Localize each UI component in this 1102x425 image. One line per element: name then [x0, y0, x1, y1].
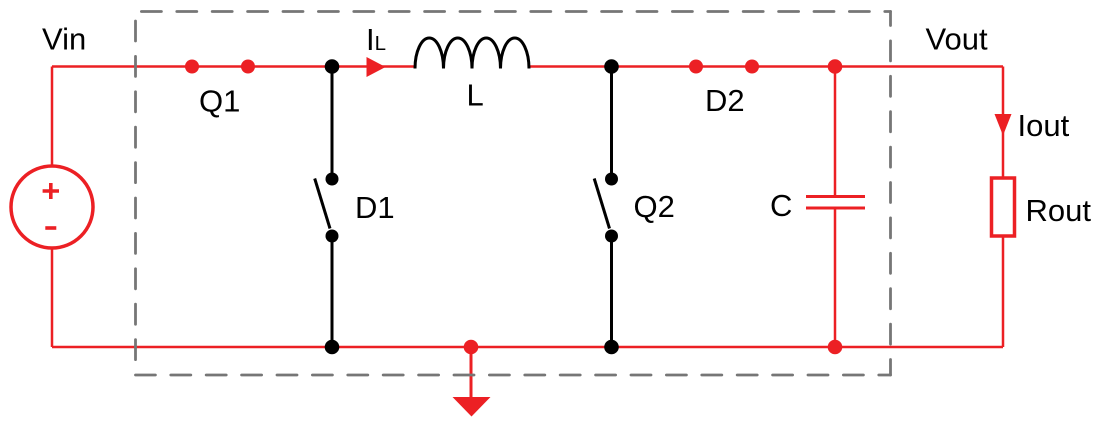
svg-text:Rout: Rout: [1026, 193, 1092, 228]
svg-text:Q2: Q2: [634, 189, 675, 224]
svg-text:L: L: [467, 78, 484, 113]
svg-text:Vin: Vin: [42, 22, 86, 57]
svg-text:Vout: Vout: [926, 22, 988, 57]
svg-text:D1: D1: [355, 190, 395, 225]
svg-text:Iout: Iout: [1018, 108, 1070, 143]
svg-text:Q1: Q1: [199, 83, 240, 118]
svg-text:D2: D2: [705, 83, 745, 118]
svg-text:C: C: [770, 188, 792, 223]
svg-text:IL: IL: [366, 22, 386, 57]
